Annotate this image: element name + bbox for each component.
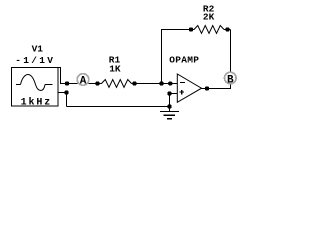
svg-text:2K: 2K: [203, 12, 215, 23]
resistor R2 zigzag: [191, 26, 224, 34]
op-amp U1 triangle: [177, 74, 201, 102]
op-amp plus input wire: [170, 93, 178, 95]
wire node B to output corner: [207, 84, 231, 89]
junction dot source bottom stub: [64, 90, 68, 94]
junction dot R2 left: [189, 27, 193, 31]
junction dot before minus input: [168, 81, 172, 85]
wire output to op-amp apex: [202, 88, 208, 90]
sine wave left dash: [16, 84, 21, 86]
ground rail wire: [67, 106, 170, 108]
svg-text:V1: V1: [32, 44, 44, 55]
junction dot at source top wire: [65, 81, 69, 85]
wire right vertical down to node B: [230, 30, 232, 73]
svg-text:B: B: [227, 74, 234, 86]
svg-text:-1/1V: -1/1V: [15, 55, 55, 66]
op-amp minus sign: [180, 82, 185, 84]
junction dot R2 right: [225, 27, 229, 31]
resistor R1 zigzag: [102, 80, 132, 88]
op-amp plus sign: [180, 90, 185, 95]
junction dot before R1: [95, 81, 99, 85]
feedback wire up from minus input: [162, 30, 192, 84]
ground symbol: [160, 112, 179, 119]
sine wave right dash: [45, 84, 53, 86]
node B circle: [225, 72, 237, 84]
wire source minus down to rail: [66, 93, 68, 107]
junction dot feedback/minus input: [159, 81, 163, 85]
junction dot after R1: [132, 81, 136, 85]
wire node A to R1: [89, 83, 102, 85]
wire R2 right to corner: [224, 29, 231, 31]
svg-text:1K: 1K: [109, 64, 121, 75]
sine wave: [21, 75, 46, 91]
node A circle: [77, 74, 89, 86]
svg-text:OPAMP: OPAMP: [169, 55, 199, 66]
svg-text:A: A: [80, 76, 87, 88]
svg-text:1kHz: 1kHz: [21, 97, 53, 109]
wire from V1 top pin: [58, 68, 77, 84]
wire plus input down to ground: [169, 94, 171, 112]
junction dot plus input corner: [167, 91, 171, 95]
wire V1 bottom pin stub: [58, 92, 67, 94]
junction dot ground rail: [167, 104, 171, 108]
wire R1 to op-amp minus input: [132, 83, 178, 85]
junction dot output: [205, 86, 209, 90]
voltage source V1 box: [12, 68, 59, 107]
